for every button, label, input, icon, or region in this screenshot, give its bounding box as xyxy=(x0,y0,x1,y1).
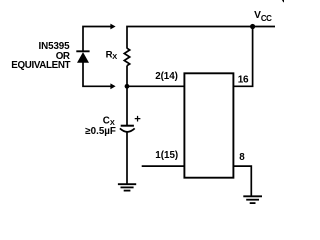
junction dot on VCC rail xyxy=(250,24,255,29)
svg-text:≥0.5µF: ≥0.5µF xyxy=(85,126,116,137)
wire CX to ground xyxy=(126,132,128,184)
svg-text:8: 8 xyxy=(239,152,245,163)
svg-text:RX: RX xyxy=(106,49,118,61)
IC U1 body xyxy=(184,73,233,177)
diode D1 label IN5395 OR EQUIVALENT xyxy=(11,41,70,71)
wire pin 8 to ground xyxy=(233,166,251,196)
node dot at RX / CX / pin 2 junction xyxy=(125,84,130,89)
ground under pin 8 xyxy=(243,196,262,203)
wire node to pin 2(14) xyxy=(127,85,184,87)
svg-text:VCC: VCC xyxy=(254,10,272,23)
wire pin 1(15) stub xyxy=(142,165,185,167)
resistor RX zigzag xyxy=(124,48,129,65)
ground under CX xyxy=(118,184,136,190)
svg-text:1(15): 1(15) xyxy=(155,150,178,161)
wire node down to CX xyxy=(126,86,128,125)
svg-text:16: 16 xyxy=(238,74,249,85)
corner crop artifact top-right xyxy=(282,0,284,3)
wire diode anode riser to VCC rail xyxy=(83,27,111,53)
svg-text:2(14): 2(14) xyxy=(155,71,178,82)
wire diode cathode drop to node arrow xyxy=(83,62,111,86)
arrowhead into VCC rail xyxy=(110,24,115,30)
svg-text:EQUIVALENT: EQUIVALENT xyxy=(11,60,70,71)
svg-text:+: + xyxy=(134,114,141,126)
wire VCC rail down to pin 16 xyxy=(233,27,252,87)
arrowhead into node xyxy=(110,83,115,89)
diode D1 symbol (cathode bar + triangle) xyxy=(76,50,89,52)
wire RX top lead, corner and VCC rail xyxy=(127,27,275,49)
wire RX bottom lead to node xyxy=(126,66,128,87)
capacitor CX plates xyxy=(121,125,134,127)
